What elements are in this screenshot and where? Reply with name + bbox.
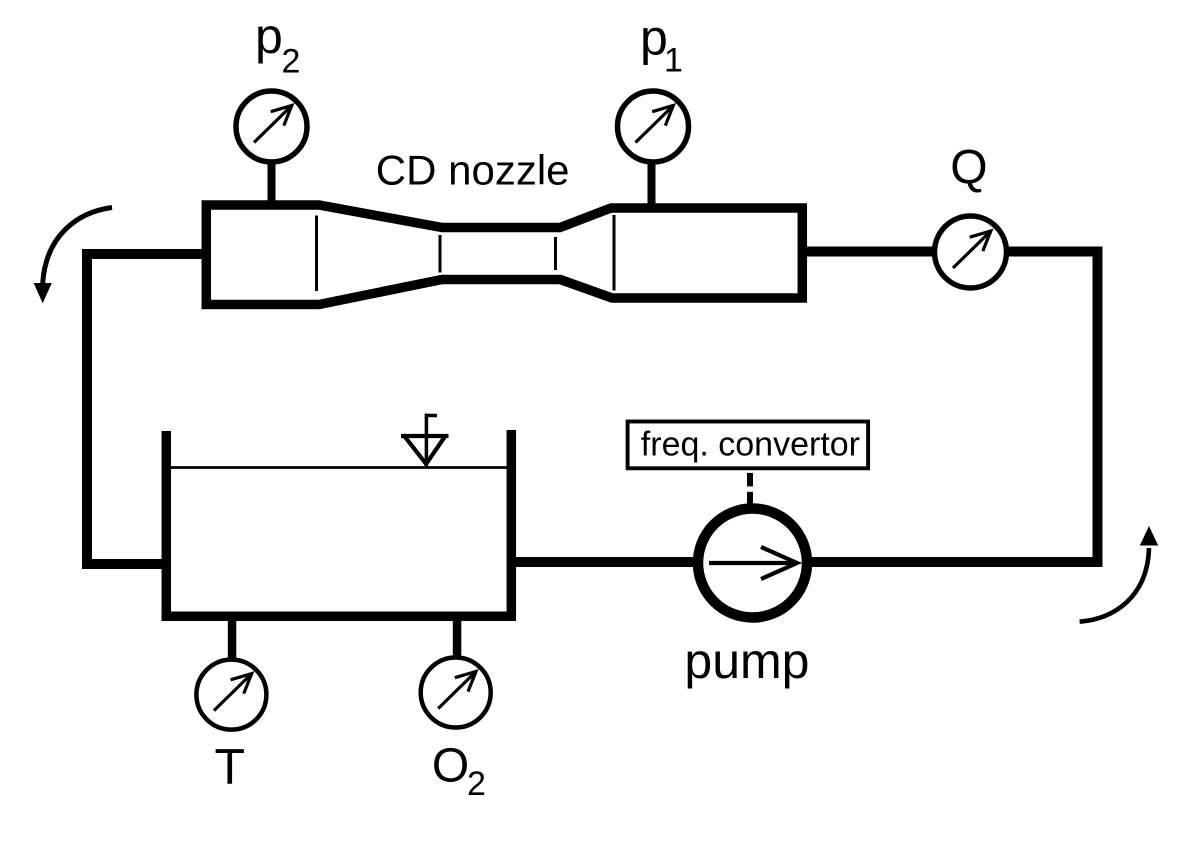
svg-text:1: 1: [664, 42, 683, 80]
svg-text:T: T: [215, 739, 246, 795]
svg-text:2: 2: [467, 765, 486, 803]
svg-text:Q: Q: [950, 142, 987, 195]
svg-text:O: O: [432, 740, 469, 793]
svg-text:p: p: [255, 8, 283, 64]
svg-text:freq. convertor: freq. convertor: [641, 426, 860, 464]
svg-text:2: 2: [282, 43, 301, 81]
svg-text:pump: pump: [684, 633, 809, 689]
svg-text:CD nozzle: CD nozzle: [376, 147, 570, 194]
